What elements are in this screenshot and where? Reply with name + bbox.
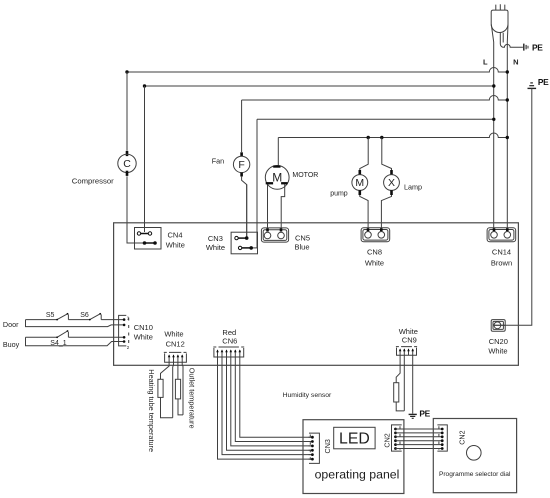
svg-text:M: M — [355, 177, 364, 189]
svg-text:Fan: Fan — [212, 156, 224, 165]
svg-text:S4_1: S4_1 — [50, 340, 66, 347]
svg-text:PE: PE — [419, 409, 430, 419]
connector CN6 — [213, 347, 244, 357]
svg-text:White: White — [399, 327, 418, 336]
svg-text:N: N — [513, 58, 518, 67]
svg-text:Outlet temperature: Outlet temperature — [187, 368, 196, 429]
bus wire 5 (to N) — [278, 133, 507, 138]
svg-text:Blue: Blue — [294, 243, 309, 252]
PCB main board — [114, 223, 519, 365]
bus wire 2 (to L) — [145, 85, 494, 87]
junction dots bus 1 — [125, 70, 128, 73]
wire motor branch — [277, 138, 279, 166]
svg-text:CN10: CN10 — [134, 323, 153, 332]
svg-text:CN2: CN2 — [458, 430, 467, 444]
wire pump branch — [360, 138, 368, 171]
svg-text:CN6: CN6 — [222, 336, 237, 345]
svg-text:CN14: CN14 — [492, 247, 511, 256]
svg-text:CN2: CN2 — [382, 433, 391, 447]
bus wire 1 (to N) — [127, 68, 507, 73]
svg-text:LED: LED — [339, 431, 370, 448]
wire L from plug to CN14 — [491, 25, 493, 229]
compressor C — [118, 151, 136, 176]
svg-text:CN3: CN3 — [323, 439, 332, 453]
wire PE pigtail from plug — [500, 33, 523, 48]
svg-text:MOTOR: MOTOR — [292, 172, 318, 179]
humidity sensor — [394, 355, 405, 411]
wire N from plug to CN14 — [506, 25, 509, 229]
svg-text:White: White — [488, 347, 507, 356]
LED display — [334, 427, 375, 449]
svg-text:Heating tube temperature: Heating tube temperature — [147, 369, 156, 452]
outlet temperature sensor — [175, 362, 183, 415]
svg-text:Brown: Brown — [491, 259, 512, 268]
lamp X — [384, 170, 400, 195]
svg-text:White: White — [134, 333, 153, 342]
svg-text:Humidity sensor: Humidity sensor — [283, 392, 332, 399]
svg-text:CN5: CN5 — [295, 233, 310, 242]
svg-text:Buoy: Buoy — [3, 340, 20, 349]
svg-text:CN4: CN4 — [167, 231, 182, 240]
svg-text:PE: PE — [538, 77, 549, 87]
wire fan branch — [241, 100, 243, 152]
bus wire 4 (to L) — [257, 118, 494, 120]
pump M2 — [352, 170, 368, 195]
svg-text:M: M — [272, 171, 282, 185]
svg-text:S6: S6 — [80, 312, 89, 319]
wire CN9 to PE — [412, 355, 414, 413]
svg-text:PE: PE — [532, 43, 543, 53]
connector CN3 — [231, 119, 257, 254]
wire lamp branch — [382, 138, 392, 171]
connector CN9 — [396, 347, 417, 356]
door switch circuit — [26, 313, 126, 327]
wire PE vertical down to CN20 — [494, 88, 532, 325]
svg-text:CN9: CN9 — [402, 336, 417, 345]
fan F — [233, 152, 249, 176]
wire compressor branch — [126, 72, 128, 151]
connector CN4 — [135, 86, 162, 249]
selector connector CN2 — [437, 425, 447, 451]
ground PE (right) — [528, 83, 537, 89]
svg-text:L: L — [483, 58, 488, 67]
heating tube temperature sensor — [158, 362, 174, 418]
svg-text:CN3: CN3 — [208, 234, 223, 243]
svg-text:Door: Door — [3, 320, 19, 329]
programme selector box — [433, 419, 516, 493]
wires panel CN2 to selector CN2 — [396, 429, 443, 449]
connector CN5 — [261, 228, 288, 242]
svg-text:F: F — [238, 159, 244, 171]
ground PE (bottom) — [409, 414, 417, 418]
mains plug P1 — [491, 4, 508, 32]
programme selector dial — [467, 446, 482, 461]
wires CN6 to operating panel CN3 — [218, 357, 312, 459]
svg-text:C: C — [123, 158, 131, 170]
PE terminal (plug side) — [524, 44, 528, 51]
svg-text:White: White — [206, 243, 225, 252]
svg-text:White: White — [164, 329, 183, 338]
panel connector CN2 — [392, 425, 402, 451]
svg-text:CN12: CN12 — [166, 340, 185, 349]
svg-text:operating panel: operating panel — [315, 468, 400, 482]
panel connector CN3 — [309, 433, 320, 463]
operating panel box — [303, 420, 404, 494]
svg-text:White: White — [365, 259, 384, 268]
connector CN8 — [361, 228, 390, 242]
svg-text:S5: S5 — [46, 312, 55, 319]
svg-text:X: X — [388, 177, 395, 189]
connector CN20 — [491, 320, 505, 332]
svg-text:White: White — [166, 240, 185, 249]
svg-text:pump: pump — [330, 191, 348, 198]
connector CN12 — [164, 352, 187, 362]
svg-text:CN20: CN20 — [489, 337, 508, 346]
svg-text:Lamp: Lamp — [404, 182, 422, 191]
motor M1 — [265, 165, 289, 189]
buoy switch circuit — [26, 330, 126, 346]
svg-text:CN8: CN8 — [367, 247, 382, 256]
svg-text:Programme selector dial: Programme selector dial — [439, 471, 511, 478]
bus wire 3 (to N) — [242, 96, 508, 100]
svg-text:Compressor: Compressor — [72, 176, 114, 185]
connector CN10 — [119, 315, 130, 349]
connector CN14 — [487, 228, 516, 242]
